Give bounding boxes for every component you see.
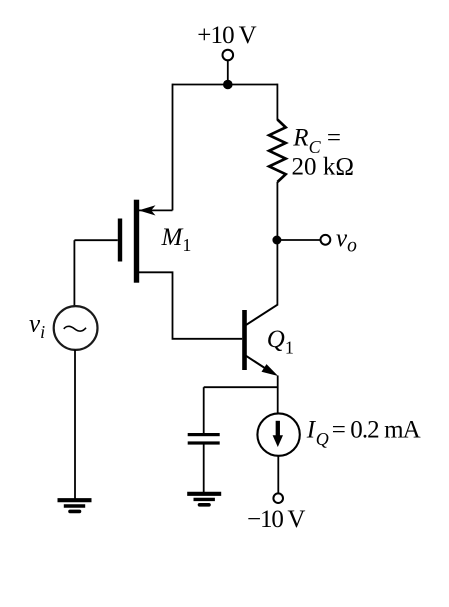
wire right branch to resistor	[276, 84, 278, 120]
wire supply stub	[227, 61, 229, 85]
wire top rail	[173, 84, 278, 86]
transistor Q1 base bar	[242, 310, 247, 370]
resistor RC zigzag	[269, 120, 286, 183]
ground left	[58, 500, 92, 511]
svg-text:= 0.2 mA: = 0.2 mA	[332, 417, 421, 444]
wire below capacitor	[203, 445, 205, 494]
mosfet M1 channel bar	[134, 200, 139, 283]
terminal +10 V	[223, 50, 234, 61]
wire capacitor branch down	[203, 387, 205, 433]
wire M1 gate lead	[74, 239, 117, 241]
wire M1 drain lead	[139, 209, 173, 211]
wire M1 source lead	[139, 272, 242, 339]
svg-text:−10 V: −10 V	[247, 506, 305, 533]
capacitor top plate	[188, 433, 220, 436]
ground center	[187, 494, 221, 505]
svg-text:+10 V: +10 V	[197, 22, 257, 49]
mosfet M1 gate bar	[118, 219, 122, 262]
svg-text:20 kΩ: 20 kΩ	[292, 153, 355, 180]
wire Q1 collector diagonal	[246, 305, 278, 326]
wire below vi	[74, 350, 76, 499]
arrowhead M1 drain	[139, 205, 156, 215]
wire vo stub	[277, 239, 321, 241]
wire left branch down	[172, 84, 174, 211]
wire gate branch down	[73, 240, 75, 306]
sine tilde inside vi	[64, 326, 86, 331]
wire below current source	[277, 456, 279, 494]
junction dot supply node	[223, 80, 233, 90]
svg-text:Q: Q	[316, 429, 329, 449]
wire emitter to capacitor	[204, 386, 278, 388]
terminal vo	[321, 235, 331, 245]
junction dot vo node	[272, 236, 281, 245]
wire Q1 emitter diagonal	[246, 356, 272, 373]
source vi circle	[54, 306, 98, 350]
arrowhead Q1 emitter	[262, 364, 279, 376]
current source arrow	[273, 421, 283, 447]
current source IQ circle	[257, 413, 299, 455]
terminal -10 V	[273, 493, 283, 503]
capacitor bottom plate	[188, 441, 220, 444]
wire emitter down	[277, 376, 279, 415]
wire resistor to collector	[276, 182, 278, 306]
